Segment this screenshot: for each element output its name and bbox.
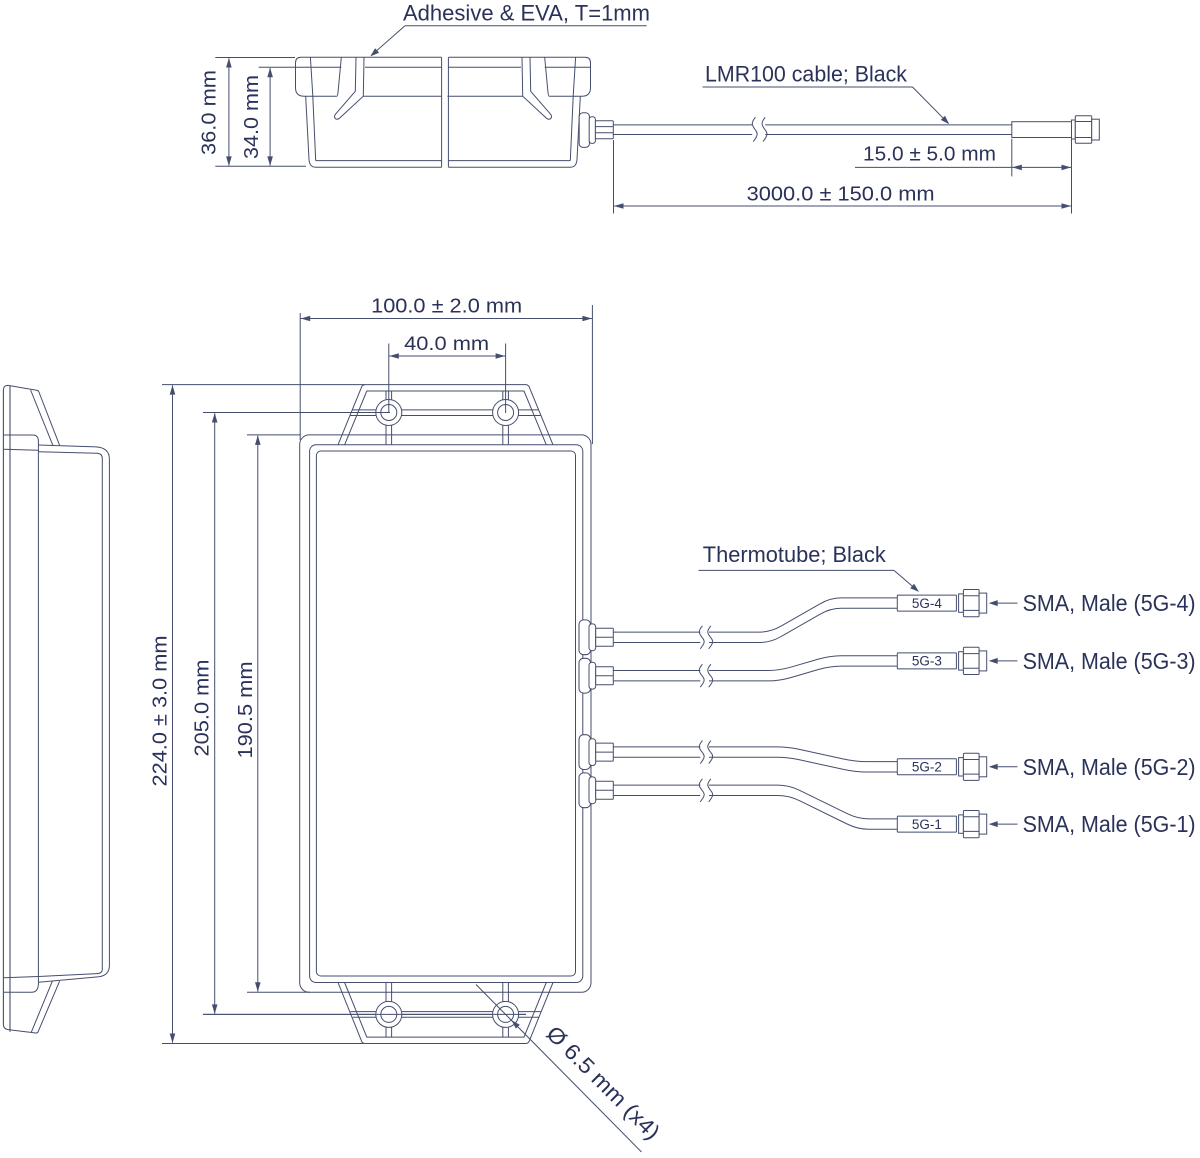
thermotube label box 5G-2: [897, 759, 956, 775]
SMA label text 5G-3: [1023, 648, 1196, 674]
dimension 190.5 line: [255, 435, 261, 991]
top view tub bottom edges: [316, 161, 571, 168]
thermotube label box 5G-3: [897, 653, 956, 669]
top view tub left wall: [306, 96, 316, 167]
SMA connector 5G-2 hex nut: [963, 753, 979, 780]
bottom tab rib lines: [350, 1012, 541, 1018]
top mounting hole right: [493, 400, 519, 426]
top tab outer outline: [338, 385, 553, 445]
svg-text:40.0 mm: 40.0 mm: [404, 333, 489, 355]
cable 5G-1 break marks: [699, 779, 712, 802]
label Thermotube text: [703, 542, 887, 567]
front view body bottom face: [316, 451, 575, 976]
side view lid-to-body joins: [3, 449, 38, 978]
SMA connector 5G-3 collar: [959, 652, 964, 670]
dimension 15.0 text: [863, 144, 996, 166]
SMA connector 5G-3 hex nut: [963, 647, 979, 674]
dimension 40.0 text: [404, 333, 489, 355]
dimension 36.0 mm line: [226, 58, 232, 166]
bottom tab hole necks: [386, 983, 508, 1038]
SMA connector (cable end) hex nut: [1075, 116, 1091, 144]
svg-text:36.0 mm: 36.0 mm: [199, 70, 221, 155]
thermotube label text 5G-4: [912, 596, 943, 611]
svg-text:Thermotube; Black: Thermotube; Black: [703, 542, 887, 567]
top tab rib lines: [350, 410, 540, 416]
dimension 205.0 bottom extension line: [203, 1013, 526, 1015]
top view cable gland nut: [595, 121, 613, 139]
svg-text:LMR100 cable; Black: LMR100 cable; Black: [705, 62, 908, 87]
dimension 224.0 extension lines: [162, 385, 365, 1044]
svg-text:3000.0 ± 150.0 mm: 3000.0 ± 150.0 mm: [747, 184, 935, 206]
connector stub 5G-4 ferrule: [596, 628, 614, 646]
cable 5G-4 lines: [613, 598, 897, 643]
SMA label text 5G-1: [1023, 811, 1196, 837]
bottom tab inner outline: [345, 983, 547, 1038]
dimension 100.0 extension lines: [300, 305, 592, 444]
top tab inner outline: [345, 391, 547, 445]
top view lid inner edge line: [296, 66, 590, 68]
svg-text:190.5 mm: 190.5 mm: [235, 662, 257, 759]
dimension 100.0 text: [371, 296, 522, 318]
cable break marks: [752, 117, 767, 141]
label Thermotube leader: [699, 570, 920, 592]
dimension 3000.0 text: [747, 184, 935, 206]
dimension 100.0 line: [300, 316, 592, 322]
SMA label arrow 5G-3: [989, 658, 1018, 664]
svg-text:34.0 mm: 34.0 mm: [241, 75, 263, 159]
top view centre break lines: [442, 57, 449, 167]
thermotube label box 5G-1: [897, 816, 956, 832]
top view cable gland mid collar: [589, 117, 595, 144]
top tab hole necks: [386, 391, 508, 445]
connector stub 5G-2 inner collar: [589, 739, 596, 766]
svg-text:SMA, Male (5G-1): SMA, Male (5G-1): [1023, 811, 1196, 837]
top view tub right wall: [570, 96, 580, 167]
dimension 205.0 top extension line over holes: [203, 412, 390, 414]
label Adhesive & EVA text: [403, 1, 650, 26]
svg-text:5G-2: 5G-2: [912, 760, 942, 775]
hole diameter text: [541, 1021, 665, 1145]
dimension 205.0 bottom extension line over holes: [203, 1013, 526, 1015]
label LMR100 cable text: [705, 62, 908, 87]
dimension 190.5 text: [235, 662, 257, 759]
thermotube label text 5G-3: [912, 654, 942, 669]
cable 5G-4 break marks: [699, 626, 712, 649]
SMA label text 5G-4: [1023, 590, 1196, 616]
svg-text:100.0 ± 2.0 mm: 100.0 ± 2.0 mm: [371, 296, 522, 318]
svg-text:SMA, Male (5G-4): SMA, Male (5G-4): [1023, 590, 1196, 616]
connector stub 5G-3 inner collar: [589, 662, 596, 689]
connector stub 5G-2 outer collar: [579, 735, 591, 770]
top view right tab edge line: [573, 57, 575, 96]
dimension 34.0 mm extension line: [259, 66, 296, 68]
LMR100 cable lines: [613, 125, 1012, 135]
SMA connector 5G-1 hex nut: [963, 811, 979, 838]
top view right tab lip line: [545, 58, 549, 97]
dimension 15.0 extension lines: [1012, 139, 1072, 214]
cable 5G-3 lines: [613, 656, 897, 681]
svg-text:5G-4: 5G-4: [912, 596, 943, 611]
SMA connector 5G-2 plug cap: [979, 757, 987, 777]
side view body outline: [38, 445, 109, 982]
connector stub 5G-1 inner collar: [589, 777, 596, 804]
dimension 205.0 line: [212, 413, 218, 1014]
connector stub 5G-4 inner collar: [589, 624, 596, 651]
hole diameter leader line: [476, 985, 642, 1153]
cable 5G-3 break marks: [699, 664, 712, 687]
svg-text:205.0 mm: 205.0 mm: [192, 660, 214, 757]
svg-text:15.0 ± 5.0 mm: 15.0 ± 5.0 mm: [863, 144, 996, 166]
SMA connector 5G-2 collar: [959, 758, 964, 776]
dimension 205.0 text: [192, 660, 214, 757]
top view left tab lip line: [337, 58, 341, 97]
cable 5G-2 lines: [613, 747, 897, 772]
connector stub 5G-4 outer collar: [579, 620, 591, 655]
SMA connector (cable end) collar: [1072, 120, 1076, 139]
cable 5G-2 break marks: [699, 741, 712, 764]
dimension 40.0 extension lines (through holes): [389, 344, 506, 414]
dimension 3000.0 line: [614, 203, 1072, 209]
bottom tab outer outline: [338, 983, 553, 1044]
SMA connector 5G-4 hex nut: [963, 590, 979, 617]
dimension 190.5 extension lines: [247, 435, 310, 992]
dimension 40.0 line: [389, 353, 506, 359]
SMA connector 5G-4 collar: [959, 594, 964, 612]
top mounting hole left: [376, 400, 402, 426]
thermotube label box 5G-4: [897, 595, 956, 611]
dimension 15.0 line: [855, 165, 1072, 171]
connector stub 5G-2 ferrule: [596, 743, 614, 761]
connector stub 5G-3 outer collar: [579, 658, 591, 693]
bottom mounting hole left: [376, 1001, 402, 1027]
dimension 36.0 mm extension lines: [215, 58, 306, 167]
cable 5G-1 lines: [613, 785, 897, 829]
svg-text:5G-3: 5G-3: [912, 654, 942, 669]
label LMR100 cable leader: [703, 87, 950, 124]
front view back plate (lid): [300, 435, 591, 992]
svg-text:SMA, Male (5G-2): SMA, Male (5G-2): [1023, 754, 1196, 780]
dimension 3000.0 extension line: [613, 140, 615, 214]
connector stub 5G-1 ferrule: [596, 781, 614, 799]
SMA label text 5G-2: [1023, 754, 1196, 780]
thermotube label text 5G-2: [912, 760, 942, 775]
SMA connector 5G-3 plug cap: [979, 651, 987, 671]
connector stub 5G-1 outer collar: [579, 773, 591, 808]
top view lid plate outline: [296, 57, 591, 96]
top view left tab wing: [334, 58, 364, 120]
SMA connector 5G-1 plug cap: [979, 814, 987, 834]
connector stub 5G-3 ferrule: [596, 667, 614, 685]
dimension 205.0 top extension line: [203, 412, 390, 414]
SMA label arrow 5G-4: [989, 600, 1018, 606]
heat shrink tube: [1012, 122, 1072, 138]
thermotube label text 5G-1: [912, 817, 942, 832]
front view body rim: [310, 445, 583, 983]
SMA label arrow 5G-2: [989, 764, 1018, 770]
SMA connector 5G-4 plug cap: [979, 593, 987, 613]
label Adhesive & EVA leader: [370, 26, 646, 57]
SMA label arrow 5G-1: [989, 821, 1018, 827]
SMA connector (cable end) plug cap: [1092, 119, 1100, 140]
dimension 34.0 mm text: [241, 75, 263, 159]
bottom mounting hole right: [493, 1001, 519, 1027]
top view left tab edge line: [310, 57, 312, 96]
svg-text:Adhesive & EVA, T=1mm: Adhesive & EVA, T=1mm: [403, 1, 650, 26]
dimension 224.0 line: [170, 385, 176, 1043]
svg-text:SMA, Male (5G-3): SMA, Male (5G-3): [1023, 648, 1196, 674]
dimension 36.0 mm text: [199, 70, 221, 155]
top view right tab wing: [522, 58, 552, 120]
side view lid plate: [3, 385, 59, 1033]
svg-text:5G-1: 5G-1: [912, 817, 942, 832]
SMA connector 5G-1 collar: [959, 815, 964, 833]
svg-text:224.0 ± 3.0 mm: 224.0 ± 3.0 mm: [150, 636, 172, 787]
dimension 34.0 mm line: [267, 68, 273, 166]
dimension 224.0 text: [150, 636, 172, 787]
side view rim edge (upper): [3, 435, 38, 992]
top view cable gland big collar: [579, 113, 589, 148]
